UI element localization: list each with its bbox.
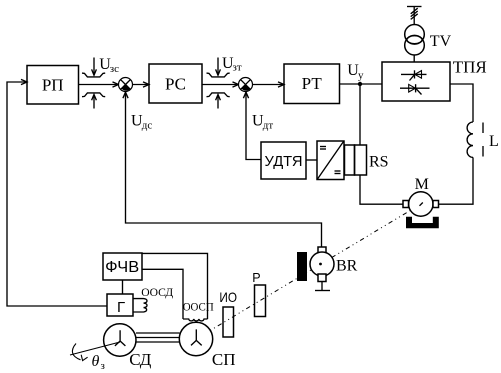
theta rotation arrow — [72, 344, 87, 361]
converter block — [317, 141, 344, 180]
svg-text:BR: BR — [336, 258, 358, 275]
limiter U_зс down arrow — [92, 58, 97, 76]
transformer TV — [405, 25, 425, 56]
arrowhead into РТ — [278, 82, 284, 87]
supply bar — [407, 6, 422, 8]
label ООСП — [183, 300, 214, 314]
wire РС to summer 2 — [202, 84, 239, 86]
wire РП to summer 1 — [79, 84, 119, 86]
label U_дт — [252, 113, 273, 132]
label BR — [336, 258, 358, 275]
block РП — [27, 66, 79, 105]
svg-text:РТ: РТ — [302, 74, 323, 93]
svg-text:θ: θ — [92, 353, 100, 370]
motor base — [406, 217, 439, 228]
svg-text:РС: РС — [165, 74, 186, 93]
label U_дс — [131, 113, 152, 132]
shunt RS rect A — [345, 145, 355, 175]
wire ФЧВ top to ООСП right — [142, 253, 208, 319]
thyristor VS1 — [401, 70, 427, 80]
label U_зс — [99, 56, 119, 75]
svg-text:ФЧВ: ФЧВ — [105, 259, 139, 276]
svg-text:дт: дт — [263, 119, 274, 131]
svg-text:М: М — [415, 176, 429, 193]
summer 1 — [119, 78, 133, 92]
label ТПЯ — [453, 58, 487, 77]
block УДТЯ — [261, 142, 306, 179]
tachogenerator BR bottom brush — [318, 274, 326, 282]
motor M — [409, 192, 433, 216]
svg-text:TV: TV — [430, 33, 452, 50]
limiter U_зт down arrow — [216, 58, 221, 76]
svg-text:RS: RS — [369, 154, 389, 171]
inductor core dashes — [482, 123, 484, 157]
motor shaft tick — [420, 203, 423, 206]
tachogenerator BR — [310, 252, 334, 276]
block ФЧВ — [103, 253, 142, 280]
label RS — [369, 154, 389, 171]
label СД — [129, 350, 151, 369]
svg-text:у: у — [358, 69, 364, 81]
label TV — [430, 33, 452, 50]
svg-text:СД: СД — [129, 350, 151, 369]
thyristor VS2 — [400, 84, 430, 94]
shaft dash-dot line — [196, 204, 421, 339]
label ООСД — [141, 285, 173, 299]
limiter U_зт up arrow — [216, 95, 221, 109]
theta input line — [70, 342, 120, 355]
wire junction down to RS — [359, 84, 361, 145]
shunt RS rect B — [355, 145, 367, 175]
limiter U_зс upper cup — [82, 73, 105, 77]
motor brush right — [433, 201, 439, 208]
tachogenerator BR top brush — [318, 247, 326, 254]
node Uy junction dot — [358, 82, 362, 86]
label U_зт — [222, 55, 242, 74]
svg-text:СП: СП — [212, 350, 236, 369]
inductor L — [467, 122, 473, 157]
machine СД — [104, 324, 136, 356]
BR ground stub — [315, 282, 330, 291]
svg-text:L: L — [489, 133, 499, 150]
wire ТПЯ right to inductor — [450, 84, 473, 122]
svg-text:дс: дс — [142, 119, 153, 131]
svg-text:ТПЯ: ТПЯ — [453, 58, 487, 77]
label ИО — [219, 289, 237, 305]
wire bar to TV — [413, 7, 415, 25]
СП winding symbol — [191, 329, 202, 345]
tachogenerator BR black mark — [297, 252, 307, 281]
label СП — [212, 350, 236, 369]
BR center dot — [319, 263, 322, 266]
СД winding symbol — [115, 330, 126, 346]
summer 2 — [239, 78, 253, 92]
winding ООСП — [183, 319, 208, 321]
resolver ИО rect — [223, 307, 234, 337]
svg-text:ООСП: ООСП — [183, 300, 214, 314]
machine СП — [179, 322, 212, 355]
label theta_з — [92, 353, 105, 372]
three-phase wires СД-СП — [136, 333, 180, 342]
block Г — [107, 294, 133, 316]
wire ФЧВ right to ООСП left — [142, 269, 183, 319]
arrowhead into РП — [21, 79, 27, 84]
limiter U_зс up arrow — [92, 95, 97, 109]
block РТ — [284, 64, 340, 104]
wire inductor to motor — [439, 157, 474, 204]
wire ФЧВ to Г — [122, 280, 124, 294]
wire summer2 to РТ — [253, 84, 285, 86]
label M — [415, 176, 429, 193]
arrowhead into summer 1 — [113, 82, 119, 87]
wire РТ to ТПЯ — [340, 83, 383, 85]
limiter U_зт upper cup — [207, 73, 230, 77]
arrowhead into summer 2 bottom — [243, 92, 248, 98]
supply slashes — [411, 8, 418, 19]
block РС — [149, 64, 202, 103]
svg-text:Г: Г — [117, 299, 125, 316]
label Р — [252, 271, 260, 285]
svg-text:ООСД: ООСД — [141, 285, 173, 299]
limiter U_зс lower cup — [82, 93, 105, 97]
limiter U_зт lower cup — [207, 93, 230, 97]
wire УДТЯ to converter — [306, 159, 317, 161]
block ТПЯ — [382, 62, 450, 101]
wire RS to motor — [360, 175, 403, 204]
wire U_дт feedback — [246, 92, 261, 160]
reducer Р rect — [255, 285, 266, 317]
wire summer1 to РС — [133, 84, 150, 86]
wire U_дс feedback — [126, 92, 322, 247]
label L — [489, 133, 499, 150]
arrowhead into summer 1 bottom — [123, 92, 128, 98]
svg-text:УДТЯ: УДТЯ — [265, 153, 303, 170]
wire feedback left vertical — [7, 82, 107, 306]
svg-text:з: з — [101, 360, 105, 372]
svg-text:РП: РП — [42, 76, 64, 95]
arrowhead into РС — [143, 82, 149, 87]
label Uy — [347, 62, 364, 81]
winding ООСД — [133, 299, 147, 312]
svg-text:зс: зс — [110, 63, 119, 75]
arrowhead into summer 2 — [233, 82, 239, 87]
wire TV to ТПЯ — [413, 55, 415, 62]
svg-text:зт: зт — [233, 62, 242, 74]
svg-text:Р: Р — [252, 271, 260, 285]
motor brush left — [403, 201, 409, 208]
svg-text:ИО: ИО — [219, 289, 237, 305]
